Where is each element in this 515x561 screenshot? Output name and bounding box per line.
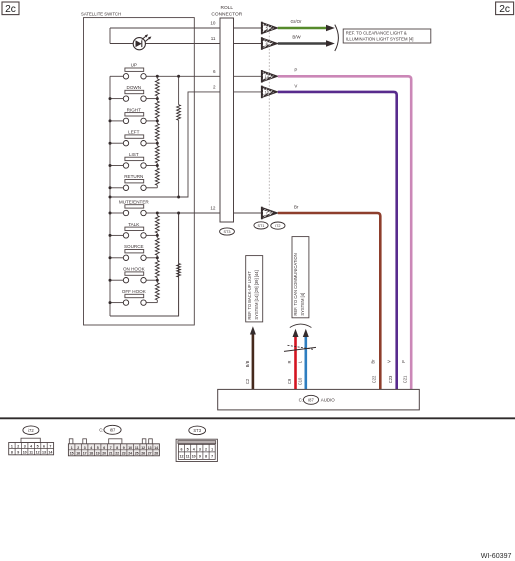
svg-text:11: 11 [29,451,33,455]
svg-text:TALK: TALK [128,222,140,227]
svg-text:25: 25 [135,452,139,456]
svg-text:SYSTEM [4]: SYSTEM [4] [300,293,305,316]
svg-text:14: 14 [154,446,158,450]
svg-text:6: 6 [266,41,268,46]
junction on left bus [109,142,112,145]
svg-text:i87: i87 [110,428,116,433]
wire tap line upper (UP row to common) [178,76,180,104]
wire Br (brown) pin12 to audio C22 [278,213,381,389]
wire pin 2 to inline connector [234,91,262,93]
svg-text:C21: C21 [403,375,408,383]
wire resistor stub [156,96,158,99]
wire resistor stub [156,278,158,281]
resistor between RIGHT and LEFT [155,124,159,141]
wire LED loop to pin 11 [110,43,220,45]
svg-text:C:: C: [299,398,303,403]
svg-text:DOWN: DOWN [127,85,142,90]
junction on tap line [177,212,180,215]
svg-text:27: 27 [148,452,152,456]
junction on resistor chain at SOURCE [156,256,159,259]
wire pin 11 to inline connector [234,43,262,45]
svg-text:2: 2 [17,445,19,449]
push switch MUTE/ENTER [110,199,157,215]
push switch LEFT [110,130,157,146]
connector ST3 pinout [176,426,217,461]
junction on left bus [109,234,112,237]
wire resistor stub [156,255,158,258]
junction on resistor chain at MUTE/ENTER [156,212,159,215]
roll connector body [211,5,242,222]
svg-text:10: 10 [23,451,27,455]
junction on resistor chain at TALK [156,234,159,237]
connector i72 pinout [9,426,54,455]
svg-text:R: R [287,361,292,364]
wire resistor stub [156,185,158,188]
svg-text:REF. TO BACK-UP LIGHT: REF. TO BACK-UP LIGHT [247,271,252,320]
junction on resistor chain at UP [156,75,159,78]
twisted pair symbol [284,347,316,351]
svg-text:UP: UP [131,63,137,68]
junction on left bus [109,301,112,304]
svg-text:ON HOOK: ON HOOK [123,267,146,272]
separator line [0,417,515,419]
svg-text:5: 5 [37,445,39,449]
svg-text:i87: i87 [308,397,314,402]
svg-text:RIGHT: RIGHT [127,107,141,112]
junction on left bus [109,119,112,122]
svg-text:WI-60397: WI-60397 [481,552,512,560]
wire B/W (black-white) to illumination [278,42,327,45]
svg-text:15: 15 [70,452,74,456]
svg-text:13: 13 [148,446,152,450]
junction on resistor chain at RIGHT [156,119,159,122]
svg-text:V: V [294,83,297,88]
wire resistor stub [156,300,158,303]
svg-text:12: 12 [180,455,184,459]
resistor between SOURCE and ON HOOK [155,260,159,277]
svg-text:3: 3 [199,447,201,451]
svg-text:23: 23 [122,452,126,456]
ref box CAN communication system [292,237,309,318]
svg-text:i72: i72 [28,428,34,433]
wire resistor stub [156,118,158,121]
svg-text:REF. TO CLEARANCE LIGHT &: REF. TO CLEARANCE LIGHT & [346,30,407,35]
resistor between MUTE/ENTER and TALK [155,216,159,233]
resistor between DOWN and RIGHT [155,101,159,118]
bracket to ref box [335,25,339,51]
svg-text:16: 16 [76,452,80,456]
svg-text:5: 5 [97,446,99,450]
page corner label 2c (top-left) [2,2,19,15]
svg-text:1: 1 [211,447,213,451]
svg-text:Br: Br [294,204,299,209]
svg-text:7: 7 [49,445,51,449]
svg-text:C22: C22 [372,375,377,383]
svg-text:ST1: ST1 [258,224,265,228]
wire P (pink) pin6 to audio C21 [278,76,411,389]
resistor R-low (tap to common) [177,264,181,278]
inline connector triangle pin 7 [262,207,278,220]
junction on left bus [109,97,112,100]
wire resistor stub [156,141,158,144]
resistor between UP and DOWN [155,79,159,96]
svg-text:4: 4 [30,445,32,449]
resistor between ON HOOK and OFF HOOK [155,283,159,300]
svg-text:11: 11 [135,446,139,450]
connector ST3 oval label [220,228,235,235]
wire MUTE/ENTER row to roll connector pin 12 [157,212,220,214]
svg-text:CONNECTOR: CONNECTOR [211,12,242,18]
wire bottom return (bus to resistor line) [110,213,179,316]
svg-text:3: 3 [84,446,86,450]
svg-text:1: 1 [11,445,13,449]
junction on left bus [109,196,112,199]
svg-text:11: 11 [211,36,216,41]
wire UP row to roll connector pin 6 [157,75,220,77]
svg-text:ROLL: ROLL [221,5,234,11]
push switch DOWN [110,85,157,101]
wire resistor stub [156,163,158,166]
push switch LIST [110,152,157,168]
svg-text:Gr/Or: Gr/Or [291,19,303,24]
svg-text:12: 12 [141,446,145,450]
svg-text:7: 7 [110,446,112,450]
svg-text:14: 14 [48,451,52,455]
svg-text:MUTE/ENTER: MUTE/ENTER [119,199,150,204]
wire pin 6 to inline connector [234,75,262,77]
LED D1 (illumination) [133,34,151,49]
svg-text:ST3: ST3 [193,428,201,433]
inline connector triangle pin 5 [262,22,278,35]
svg-text:26: 26 [141,452,145,456]
svg-text:9: 9 [199,455,201,459]
wire pin 12 to inline connector [234,212,262,214]
svg-text:11: 11 [186,455,190,459]
svg-text:LEFT: LEFT [128,130,139,135]
svg-text:2c: 2c [5,4,16,15]
connector ST1 oval label [254,222,268,229]
svg-text:24: 24 [128,452,132,456]
svg-text:13: 13 [42,451,46,455]
svg-text:10: 10 [128,446,132,450]
junction on tap line [177,196,180,199]
push switch SOURCE [110,244,157,260]
junction on left bus [109,279,112,282]
push switch RETURN [110,174,157,190]
bracket over CAN pair [290,324,312,327]
resistor between LIST and RETURN [155,168,159,185]
wire resistor stub [156,233,158,236]
svg-text:4: 4 [193,447,195,451]
svg-text:AUDIO: AUDIO [321,398,335,403]
connector i87 pinout [68,425,159,456]
svg-text:P: P [294,67,297,72]
wire V (violet) pin2 to audio C23 [278,92,397,390]
svg-text:28: 28 [154,452,158,456]
svg-text:SYSTEM [14] [29] [39] [44]: SYSTEM [14] [29] [39] [44] [254,270,259,319]
wire common bus to roll connector pin 2 [110,92,220,197]
junction on resistor chain at LIST [156,164,159,167]
svg-text:12: 12 [36,451,40,455]
wire B/B (black-black) audio C2 to back-up light [252,334,255,390]
push switch RIGHT [110,107,157,123]
svg-text:18: 18 [89,452,93,456]
wire tap line lower gap cover [178,213,180,264]
svg-text:C2: C2 [245,378,250,384]
svg-text:7: 7 [211,455,213,459]
ref box clearance & illumination light system [343,29,431,43]
svg-text:C23: C23 [388,375,393,383]
svg-text:B/B: B/B [245,360,250,367]
inline connector triangle pin 6 [262,37,278,50]
wire pin10 to LED loop (top) [110,27,220,29]
inline connector triangle pin 10 [262,86,278,99]
svg-text:6: 6 [213,69,216,74]
push switch OFF HOOK [110,289,157,305]
junction on left bus [109,212,112,215]
svg-text:2: 2 [205,447,207,451]
junction on tap line [177,75,180,78]
svg-text:ILLUMINATION LIGHT SYSTEM [4]: ILLUMINATION LIGHT SYSTEM [4] [346,36,414,41]
svg-text:2: 2 [77,446,79,450]
svg-text:C:: C: [99,427,103,432]
connector i72 oval label (inline) [271,222,285,229]
svg-text:9: 9 [123,446,125,450]
svg-text:2c: 2c [499,4,510,15]
wire pin 10 to inline connector [234,27,262,29]
svg-text:B/W: B/W [292,35,301,40]
satellite switch box [81,11,194,325]
svg-text:3: 3 [24,445,26,449]
push switch ON HOOK [110,267,157,283]
svg-text:6: 6 [43,445,45,449]
svg-text:9: 9 [17,451,19,455]
svg-text:C10: C10 [298,377,303,385]
svg-text:19: 19 [96,452,100,456]
svg-text:i72: i72 [275,224,280,228]
svg-text:SATELLITE SWITCH: SATELLITE SWITCH [81,11,121,16]
junction on resistor chain at LEFT [156,142,159,145]
svg-text:10: 10 [192,455,196,459]
junction on left bus [109,186,112,189]
junction on resistor chain at ON HOOK [156,279,159,282]
junction on left bus [109,164,112,167]
svg-text:SOURCE: SOURCE [124,244,144,249]
svg-text:2: 2 [213,85,216,90]
svg-text:4: 4 [90,446,92,450]
svg-text:17: 17 [83,452,87,456]
junction on left bus [109,256,112,259]
junction on resistor chain at DOWN [156,97,159,100]
svg-text:5: 5 [266,26,268,31]
svg-text:8: 8 [205,455,207,459]
svg-text:12: 12 [210,206,216,211]
svg-text:V: V [387,360,392,363]
svg-text:P: P [401,360,406,363]
push switch UP [110,63,157,79]
wire left bus vertical [109,76,111,316]
wire L (blue) audio C10 CAN low [304,336,307,389]
svg-text:OFF HOOK: OFF HOOK [122,289,147,294]
svg-text:8: 8 [11,451,13,455]
svg-text:5: 5 [187,447,189,451]
push switch TALK [110,222,157,238]
svg-text:Br: Br [370,359,375,364]
svg-text:6: 6 [103,446,105,450]
inline connector triangle pin 14 [262,70,278,83]
svg-text:7: 7 [266,211,268,216]
svg-text:20: 20 [102,452,106,456]
svg-text:C9: C9 [287,378,292,384]
svg-text:RETURN: RETURN [124,174,143,179]
svg-text:22: 22 [115,452,119,456]
inline connector dashed line [268,29,270,208]
resistor R-up (tap to common) [177,105,181,121]
svg-text:LIST: LIST [129,152,139,157]
wire Gr/Or (green) to clearance light [278,27,327,30]
ref box back-up light system [246,256,263,322]
svg-text:REF. TO CAN COMMUNICATION: REF. TO CAN COMMUNICATION [293,253,298,315]
resistor between LEFT and LIST [155,146,159,163]
wire R (red) audio C9 CAN high [294,336,297,389]
svg-text:21: 21 [109,452,113,456]
svg-text:10: 10 [210,21,216,26]
svg-text:8: 8 [116,446,118,450]
svg-text:ST3: ST3 [224,230,231,234]
svg-text:6: 6 [181,447,183,451]
audio unit box [218,389,420,410]
svg-text:1: 1 [71,446,73,450]
wire LED loop left vertical [109,28,111,44]
resistor between TALK and SOURCE [155,238,159,255]
page corner label 2c (top-right) [496,2,514,15]
